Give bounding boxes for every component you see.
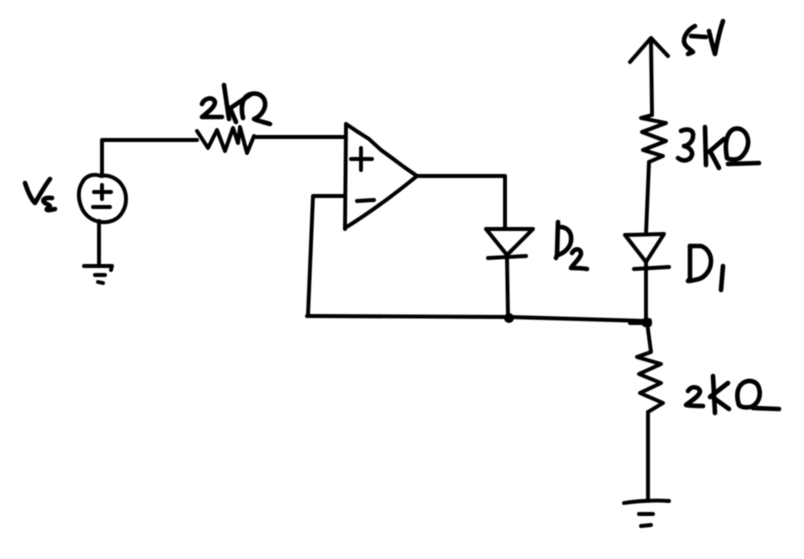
diode D2 — [486, 229, 533, 317]
label 2kΩ (pull-down) — [686, 376, 779, 413]
wire inverting input feedback — [308, 196, 345, 315]
ground (under Vs) — [84, 221, 112, 283]
op-amp U1 — [345, 124, 417, 229]
wire Vs top to input resistor — [102, 140, 197, 176]
diode D1 — [625, 234, 669, 320]
voltage source Vs — [79, 175, 126, 222]
wire resistor to op-amp + input — [254, 135, 345, 139]
node (D2 cathode / feedback junction) — [504, 313, 514, 323]
label D2 — [556, 222, 587, 269]
node (output node at D1 anode) — [642, 318, 652, 327]
wire 2k to ground — [646, 412, 650, 500]
resistor R2 3kΩ (vertical) — [641, 115, 666, 162]
label 3kΩ — [678, 127, 759, 168]
ground (bottom right) — [624, 501, 669, 526]
wire 3k to D1 — [646, 162, 649, 234]
resistor R1 2kΩ (input, horizontal) — [197, 127, 254, 153]
resistor R3 2kΩ (vertical, pull-down) — [637, 322, 663, 412]
label 2kΩ (input resistor) — [202, 85, 270, 124]
label D1 — [688, 246, 723, 290]
wire bottom feedback rail — [307, 316, 646, 321]
label 5V — [684, 21, 723, 54]
supply 5V arrow — [630, 38, 668, 114]
label Vs — [25, 179, 55, 210]
wire op-amp output — [418, 176, 505, 228]
